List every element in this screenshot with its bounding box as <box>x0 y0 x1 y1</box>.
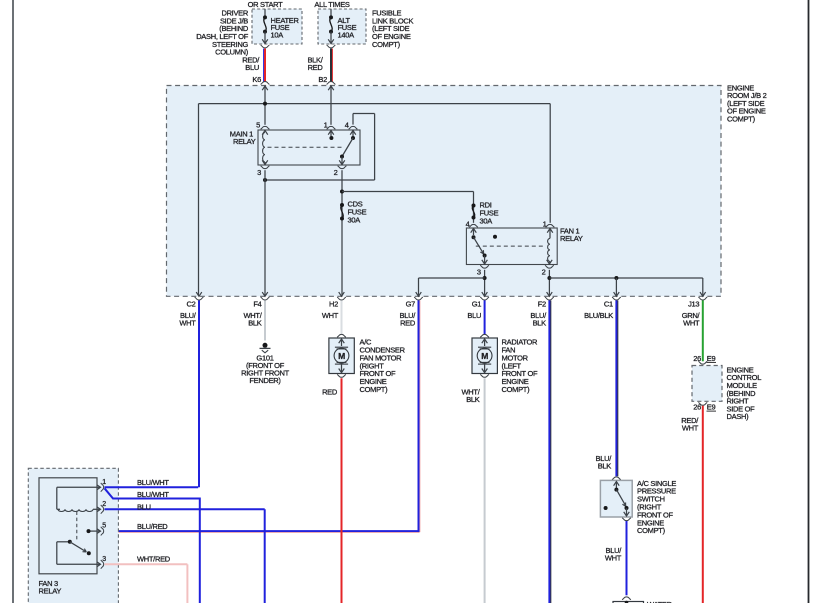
svg-text:RED: RED <box>308 63 324 72</box>
svg-text:B2: B2 <box>318 75 327 84</box>
svg-text:26: 26 <box>693 354 701 363</box>
svg-text:10A: 10A <box>271 31 284 40</box>
svg-text:BLU/WHT: BLU/WHT <box>137 490 169 499</box>
svg-text:COMPT): COMPT) <box>727 115 756 124</box>
svg-text:140A: 140A <box>338 31 355 40</box>
svg-text:J13: J13 <box>688 300 699 309</box>
svg-text:H2: H2 <box>329 300 338 309</box>
svg-text:WHT/RED: WHT/RED <box>137 554 171 563</box>
svg-text:FENDER): FENDER) <box>249 376 281 385</box>
svg-text:WHT: WHT <box>322 311 339 320</box>
svg-text:F4: F4 <box>253 300 261 309</box>
svg-text:1: 1 <box>102 479 106 486</box>
svg-text:WHT: WHT <box>605 554 622 563</box>
svg-text:G7: G7 <box>406 300 416 309</box>
svg-text:WHT: WHT <box>682 424 699 433</box>
svg-text:BLK: BLK <box>598 462 612 471</box>
svg-text:5: 5 <box>102 523 106 530</box>
svg-text:3: 3 <box>257 168 261 177</box>
svg-text:WHT: WHT <box>683 319 700 328</box>
svg-text:BLU/BLK: BLU/BLK <box>584 311 613 320</box>
svg-text:COMPT): COMPT) <box>372 40 401 49</box>
svg-text:ALL TIMES: ALL TIMES <box>314 0 350 9</box>
svg-text:OR START: OR START <box>248 0 284 9</box>
svg-text:RELAY: RELAY <box>39 586 62 595</box>
svg-text:COMPT): COMPT) <box>360 385 389 394</box>
svg-text:4: 4 <box>466 220 470 229</box>
svg-text:K6: K6 <box>252 75 261 84</box>
svg-text:30A: 30A <box>480 216 493 225</box>
svg-text:2: 2 <box>102 501 106 508</box>
svg-text:BLK: BLK <box>466 395 480 404</box>
svg-text:3: 3 <box>102 556 106 563</box>
svg-text:RELAY: RELAY <box>560 234 583 243</box>
svg-text:2: 2 <box>542 268 546 277</box>
svg-text:DASH): DASH) <box>727 412 750 421</box>
svg-text:BLK: BLK <box>248 319 262 328</box>
svg-text:RELAY: RELAY <box>233 137 256 146</box>
svg-text:BLU/WHT: BLU/WHT <box>137 478 169 487</box>
svg-text:BLU: BLU <box>245 63 259 72</box>
svg-text:5: 5 <box>256 121 260 130</box>
svg-text:BLU: BLU <box>137 502 151 511</box>
svg-text:2: 2 <box>334 168 338 177</box>
svg-text:1: 1 <box>324 121 328 130</box>
svg-text:M: M <box>481 351 488 361</box>
svg-text:E9: E9 <box>707 354 716 363</box>
svg-text:BLU/RED: BLU/RED <box>137 522 168 531</box>
svg-text:3: 3 <box>477 268 481 277</box>
svg-text:C2: C2 <box>187 300 196 309</box>
svg-text:4: 4 <box>345 121 349 130</box>
svg-text:M: M <box>338 351 345 361</box>
svg-text:C1: C1 <box>604 300 613 309</box>
svg-text:26: 26 <box>693 403 701 412</box>
svg-text:E9: E9 <box>707 403 716 412</box>
svg-text:30A: 30A <box>348 215 361 224</box>
svg-text:COMPT): COMPT) <box>502 385 531 394</box>
svg-text:BLU: BLU <box>467 311 481 320</box>
svg-text:BLK: BLK <box>533 319 547 328</box>
svg-text:G1: G1 <box>472 300 482 309</box>
svg-text:WHT: WHT <box>179 319 196 328</box>
svg-text:RED: RED <box>400 319 416 328</box>
svg-text:COMPT): COMPT) <box>637 526 666 535</box>
svg-text:RED: RED <box>322 387 338 396</box>
svg-text:F2: F2 <box>538 300 546 309</box>
